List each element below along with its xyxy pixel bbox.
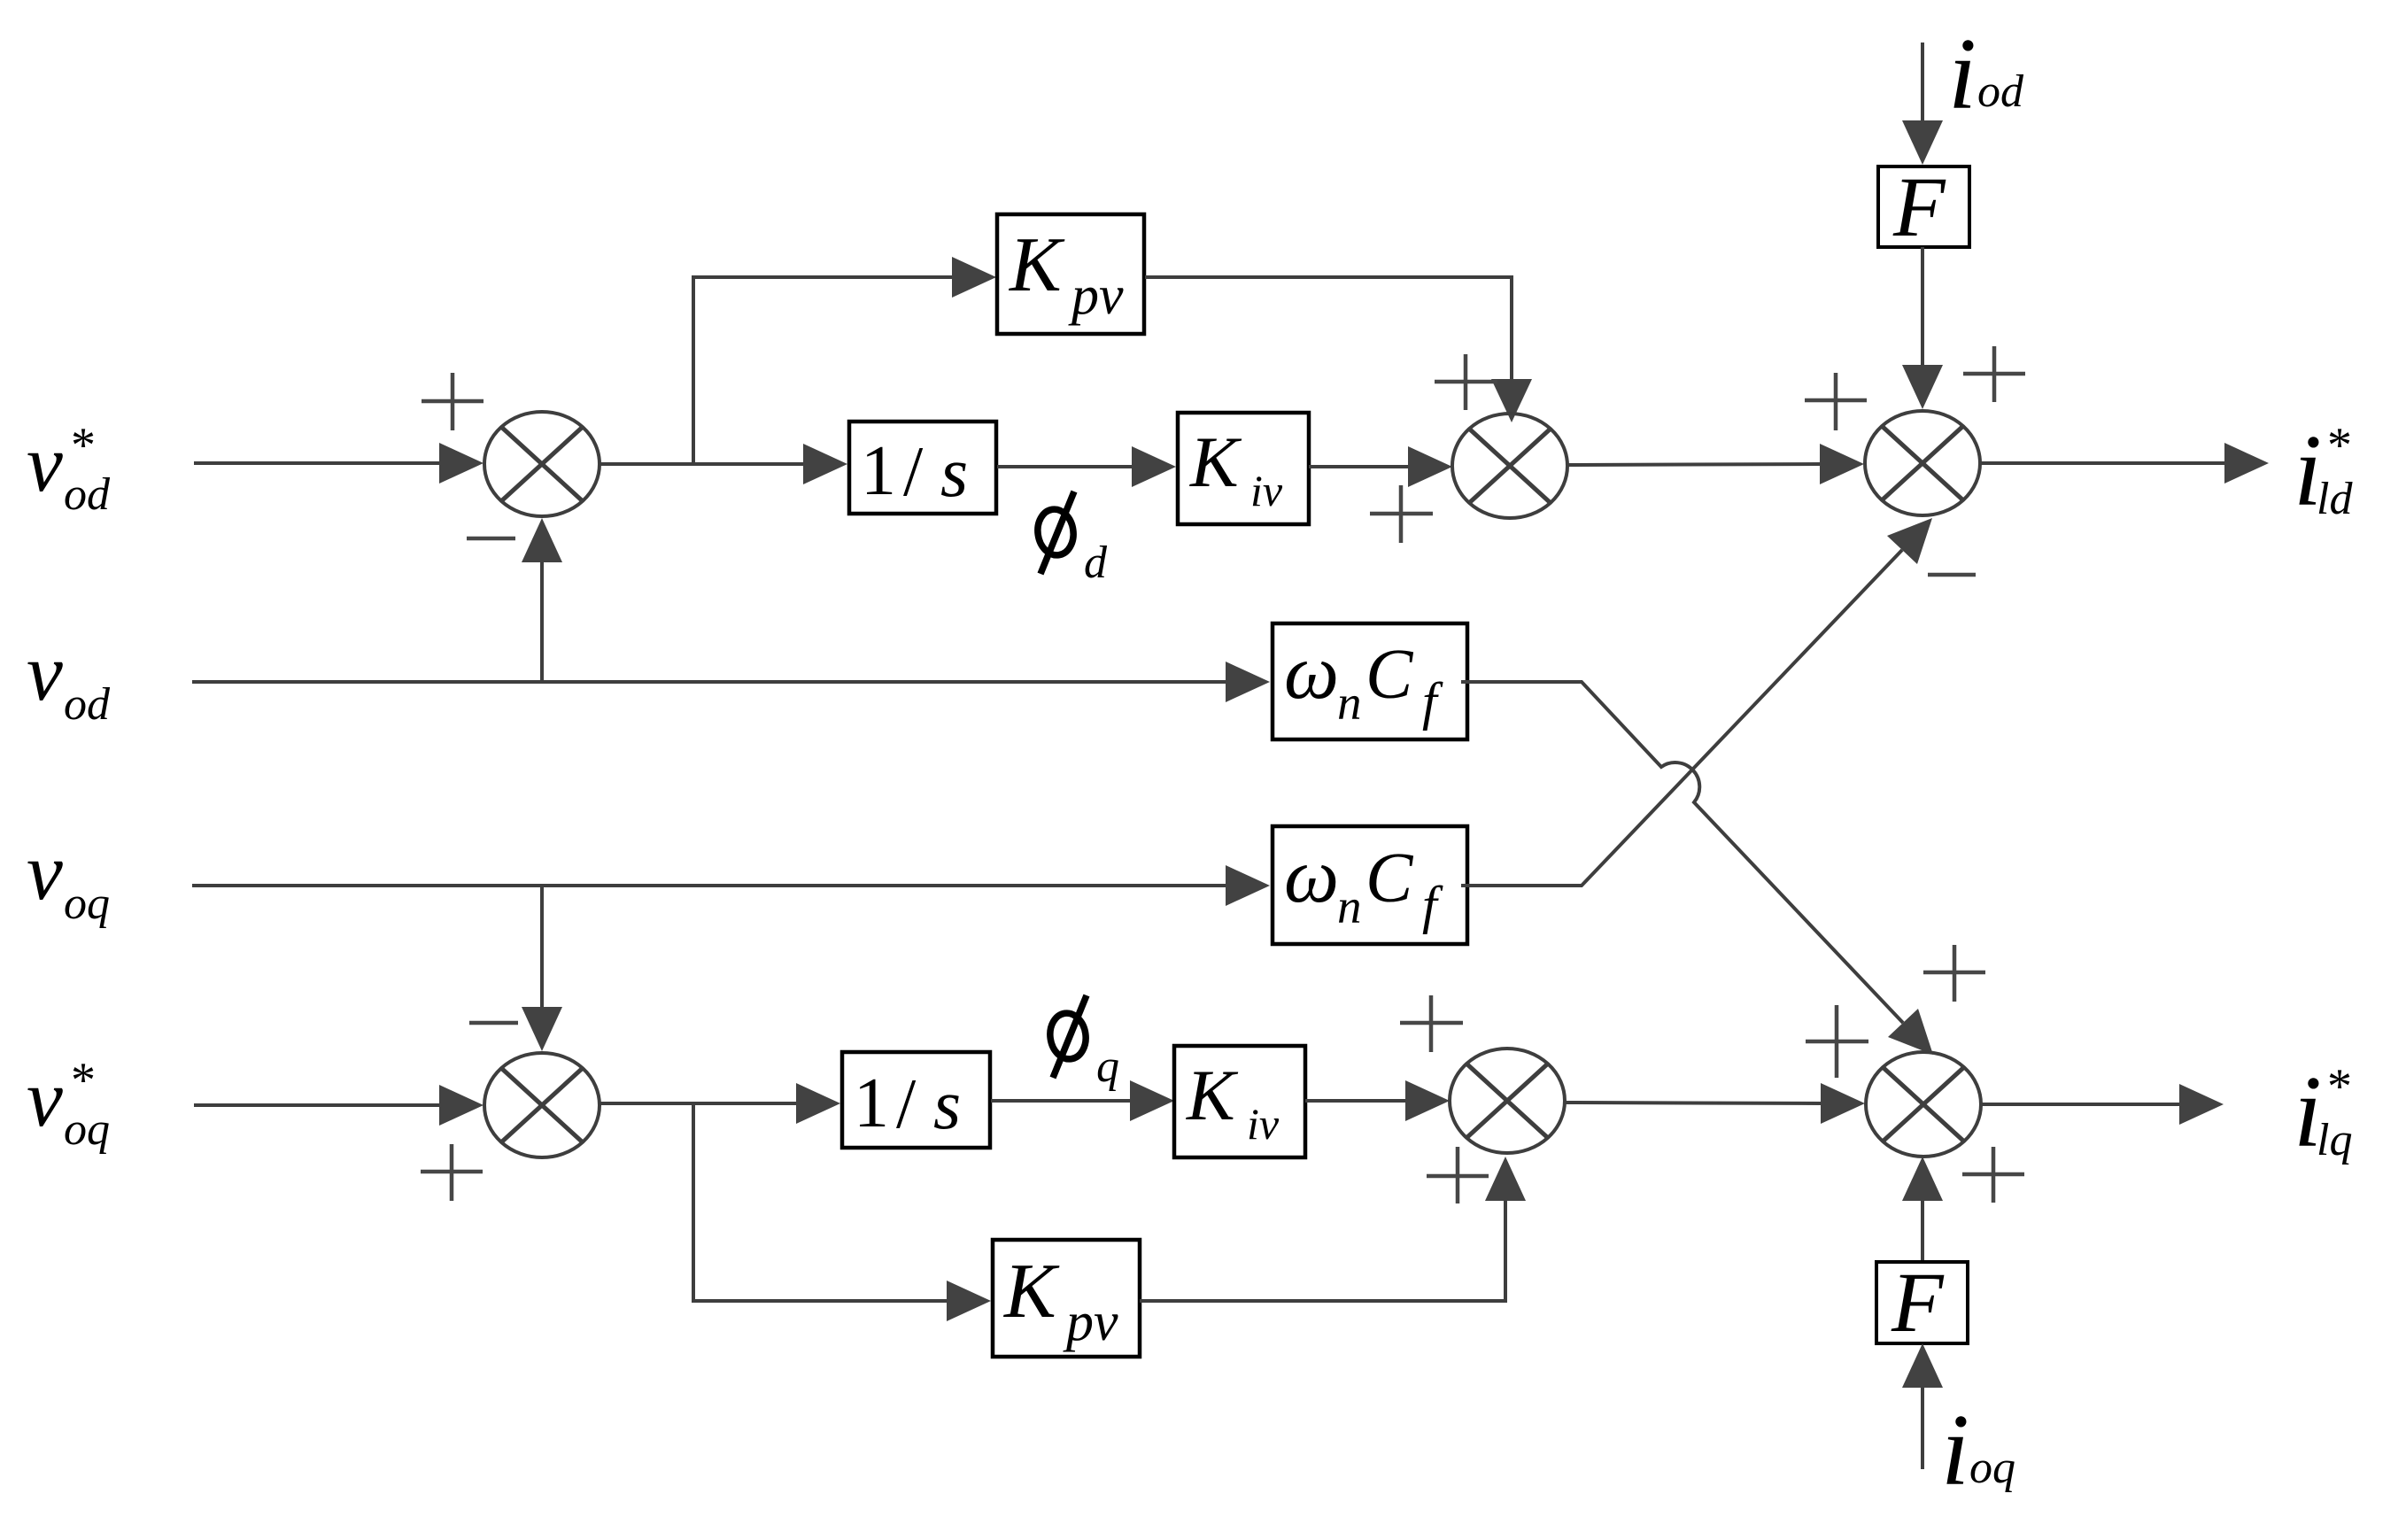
wire v_od input line (192, 680, 1227, 684)
svg-text:1: 1 (861, 432, 896, 510)
svg-text:pv: pv (1068, 266, 1124, 326)
svg-text:n: n (1337, 879, 1362, 933)
node i_oq label (1941, 1394, 2015, 1506)
svg-text:n: n (1337, 676, 1362, 730)
arrowhead into S6 left (1821, 1083, 1865, 1124)
svg-text:q: q (1096, 1041, 1119, 1092)
arrowhead into wnCf (bottom) (1226, 865, 1270, 906)
arrowhead into Kiv (bottom) (1130, 1080, 1174, 1121)
arrowhead into S3 top (1902, 365, 1943, 409)
wire wnCf (top) diagonal to S6 with hop (1461, 682, 1903, 1023)
arrowhead into S3 bottom (diagonal) (1887, 518, 1932, 564)
arrowhead into 1/s (bottom) (796, 1083, 840, 1124)
svg-text:v: v (27, 418, 63, 508)
wire F (top) to S3 (1921, 247, 1924, 366)
wire S1 output (600, 462, 806, 466)
wire Kpv output to S2 top (1145, 277, 1512, 379)
svg-text:i: i (1941, 1394, 1969, 1506)
arrowhead into S6 bottom (1902, 1157, 1943, 1201)
block Kiv (top) (1178, 413, 1309, 524)
node v_od label (27, 627, 111, 730)
wire Kpv (bottom) output up to S5 (1140, 1201, 1505, 1301)
svg-text:ω: ω (1284, 833, 1339, 919)
wire S3 output (1980, 461, 2226, 465)
node v*_od label (27, 418, 111, 520)
summing junction S5 (1450, 1049, 1565, 1153)
plus sign S2 left input (1370, 485, 1433, 543)
svg-text:od: od (64, 679, 111, 730)
svg-text:v: v (27, 627, 63, 717)
wire wnCf (bottom) diagonal to S3 (1461, 550, 1902, 886)
node i_od label (1948, 18, 2024, 130)
svg-text:*: * (71, 418, 96, 473)
svg-text:F: F (1891, 1255, 1945, 1350)
wire 1/s to Kiv (bottom) (991, 1099, 1132, 1103)
arrowhead into S1 bottom (522, 518, 562, 562)
block 1/s (top) (849, 422, 996, 514)
wire S2 output to S3 (1567, 464, 1822, 465)
svg-text:i: i (1948, 18, 1977, 130)
arrowhead into F (bottom) (1902, 1343, 1943, 1388)
arrowhead i*_lq output (2179, 1084, 2224, 1125)
svg-text:K: K (1002, 1249, 1060, 1335)
arrowhead into Kpv (top) (952, 257, 996, 298)
wire F (bottom) to S6 (1921, 1201, 1924, 1262)
plus sign S4 left input (421, 1144, 483, 1201)
svg-text:lq: lq (2317, 1115, 2352, 1165)
svg-text:iv: iv (1247, 1099, 1280, 1149)
wire S4 output (600, 1102, 801, 1105)
wire i_od input (1921, 43, 1924, 124)
arrowhead into S2 top (1491, 379, 1532, 422)
wire S6 output (1981, 1103, 2181, 1106)
plus sign S3 left input (1805, 373, 1867, 430)
node v*_oq label (27, 1053, 110, 1155)
wire 1/s to Kiv (top) (997, 465, 1133, 468)
wire v*_od input (194, 461, 443, 465)
block F (top) (1878, 159, 1969, 254)
svg-text:*: * (71, 1053, 96, 1108)
svg-text:*: * (2327, 418, 2352, 473)
wire branch up to Kpv (top) (693, 277, 955, 464)
svg-text:/: / (903, 433, 924, 511)
plus sign S6 diagonal input (1923, 945, 1985, 1002)
svg-text:1: 1 (854, 1064, 889, 1142)
plus sign S6 bottom input (1962, 1147, 2024, 1203)
wire Kiv to S2 (1309, 465, 1412, 468)
svg-text:iv: iv (1250, 466, 1283, 515)
svg-text:C: C (1365, 840, 1414, 917)
arrowhead into F (top) (1902, 120, 1943, 165)
arrowhead into summing junction S1 (439, 443, 484, 484)
summing junction S2 (1452, 414, 1567, 518)
minus sign S4 top input (469, 1021, 518, 1025)
svg-text:oq: oq (64, 1104, 110, 1155)
arrowhead into S6 top (diagonal) (1888, 1009, 1933, 1055)
svg-text:K: K (1186, 1055, 1239, 1135)
plus sign S2 top input (1435, 354, 1497, 410)
svg-text:C: C (1365, 636, 1414, 714)
plus sign S1 left input (422, 373, 484, 430)
svg-text:K: K (1189, 422, 1242, 502)
wire v_od branch up to S1 (540, 561, 544, 682)
svg-text:oq: oq (1969, 1443, 2015, 1493)
arrowhead into S5 bottom (1485, 1157, 1526, 1201)
svg-text:od: od (1977, 66, 2024, 117)
summing junction S3 (1865, 411, 1980, 515)
node i*_lq label (2294, 1056, 2352, 1168)
arrowhead into S4 top (522, 1007, 562, 1051)
block Kpv (top) (997, 214, 1144, 334)
arrowhead into S2 left (1408, 446, 1452, 487)
svg-text:v: v (27, 1053, 63, 1143)
plus sign S5 left input (1400, 995, 1463, 1052)
svg-text:pv: pv (1063, 1292, 1118, 1352)
minus sign S3 diagonal input (1928, 573, 1976, 577)
wire branch down to Kpv (bottom) (693, 1103, 949, 1301)
svg-text:/: / (896, 1065, 917, 1143)
node v_oq label (27, 826, 110, 929)
wire S5 output to S6 (1565, 1103, 1823, 1103)
summing junction S4 (484, 1053, 600, 1157)
svg-text:d: d (1084, 538, 1108, 588)
arrowhead into S4 left (439, 1085, 484, 1126)
svg-text:ω: ω (1284, 630, 1339, 716)
arrowhead into Kiv (top) (1132, 446, 1176, 487)
block wnCf (top) (1273, 623, 1467, 739)
wire v_oq branch down to S4 (540, 886, 544, 1010)
arrowhead into S3 left (1820, 444, 1864, 484)
plus sign S6 left input (1806, 1005, 1868, 1078)
block Kiv (bottom) (1174, 1046, 1305, 1157)
svg-text:od: od (64, 469, 111, 520)
arrowhead into block 1/s (top) (803, 444, 847, 484)
arrowhead into Kpv (bottom) (947, 1281, 991, 1321)
plus sign S3 top input (1963, 346, 2025, 402)
arrowhead into wnCf (top) (1226, 662, 1270, 702)
node i*_ld label (2294, 414, 2353, 527)
block F (bottom) (1876, 1255, 1968, 1350)
svg-text:ld: ld (2317, 474, 2353, 524)
node phi_d label (1035, 491, 1108, 588)
svg-text:*: * (2327, 1059, 2352, 1114)
wire v*_oq input (194, 1103, 443, 1107)
plus sign S5 bottom input (1427, 1147, 1489, 1203)
svg-text:s: s (933, 1066, 961, 1144)
node phi_q label (1048, 995, 1119, 1092)
block 1/s (bottom) (842, 1052, 990, 1148)
svg-text:oq: oq (64, 878, 110, 929)
wire Kiv to S5 (1305, 1099, 1409, 1103)
svg-text:F: F (1892, 159, 1946, 254)
arrowhead i*_ld output (2224, 443, 2269, 484)
minus sign S1 bottom input (467, 537, 515, 541)
block Kpv (bottom) (993, 1240, 1140, 1357)
summing junction S1 (484, 412, 600, 516)
wire i_oq input (1921, 1388, 1924, 1469)
arrowhead into S5 left (1405, 1080, 1450, 1121)
svg-text:K: K (1008, 222, 1065, 308)
wire v_oq input line (192, 884, 1227, 887)
svg-text:s: s (940, 434, 968, 512)
summing junction S6 (1866, 1052, 1981, 1157)
svg-text:v: v (27, 826, 63, 917)
block wnCf (bottom) (1273, 826, 1467, 944)
